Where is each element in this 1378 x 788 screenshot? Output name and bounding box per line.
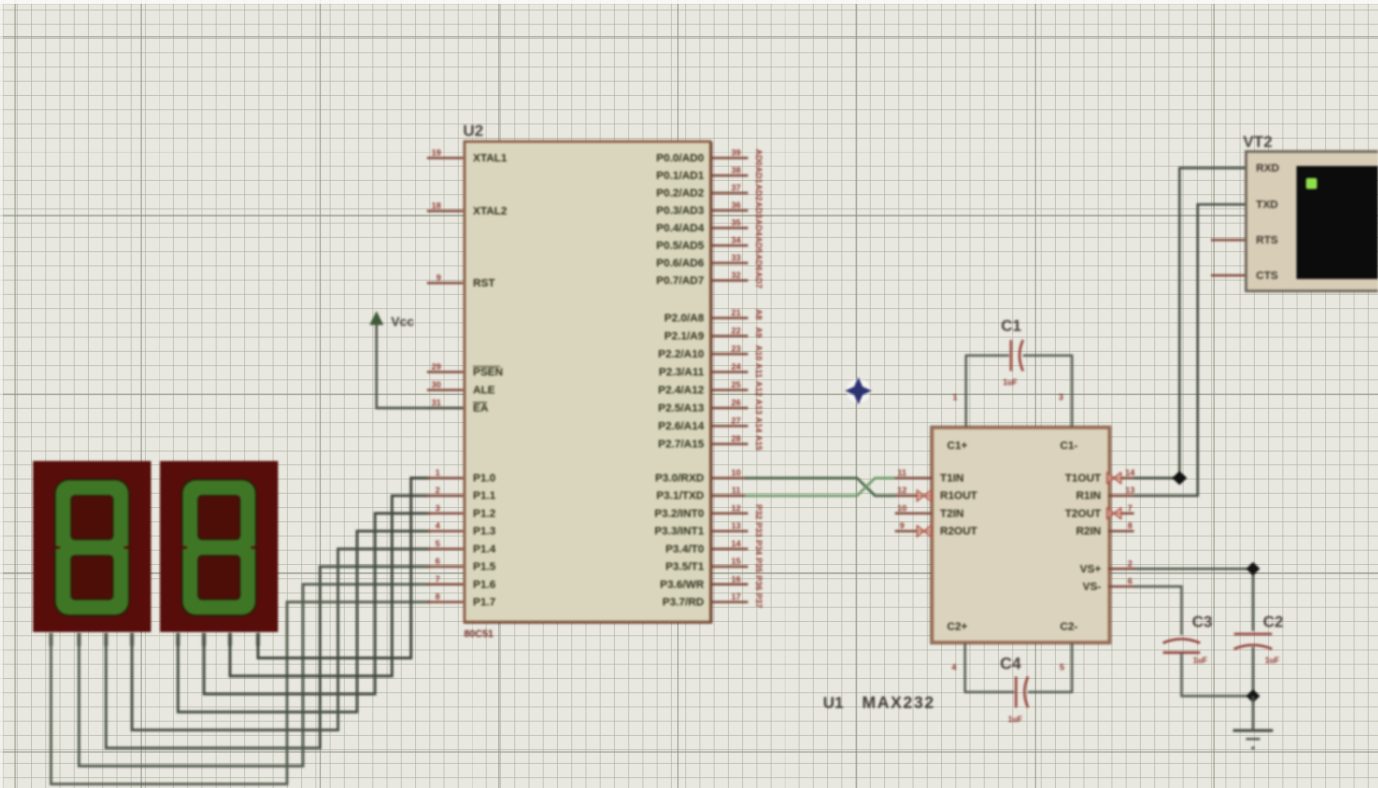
microcontroller U2 (80C51): [464, 142, 712, 624]
ground symbol: [1233, 696, 1273, 750]
wire DS pin x=79 to U2 P1 row 584.3: [79, 584, 430, 766]
svg-text:9: 9: [900, 521, 905, 531]
svg-text:AD4: AD4: [754, 219, 764, 236]
junction T1OUT/RXD: [1172, 471, 1187, 485]
svg-text:P0.2/AD2: P0.2/AD2: [656, 188, 704, 200]
wire U1 VS- to C3 top: [1134, 587, 1182, 636]
svg-text:C2+: C2+: [947, 621, 968, 633]
svg-text:24: 24: [731, 362, 741, 372]
svg-text:39: 39: [731, 148, 741, 158]
svg-text:U1: U1: [823, 695, 844, 712]
U2 P1 pin labels: [473, 473, 497, 609]
svg-text:P3.1/TXD: P3.1/TXD: [656, 490, 704, 502]
svg-text:A11: A11: [754, 363, 764, 378]
svg-text:19: 19: [432, 148, 442, 158]
svg-text:Vcc: Vcc: [391, 314, 414, 329]
svg-text:P34: P34: [754, 540, 764, 555]
svg-text:P1.3: P1.3: [473, 526, 496, 538]
svg-text:AD3: AD3: [754, 202, 764, 219]
svg-text:VS+: VS+: [1080, 563, 1101, 575]
svg-text:PSEN: PSEN: [473, 367, 503, 379]
svg-text:2: 2: [1128, 558, 1133, 568]
svg-text:R2OUT: R2OUT: [940, 526, 978, 538]
svg-text:A12: A12: [754, 381, 764, 397]
svg-text:P1.7: P1.7: [473, 597, 496, 609]
svg-text:5: 5: [435, 538, 440, 548]
U2 left pin labels: [473, 153, 507, 415]
svg-text:P1.5: P1.5: [473, 561, 496, 573]
svg-text:P1.4: P1.4: [473, 543, 497, 555]
U1 R2OUT pin arrow: [917, 526, 931, 537]
svg-text:3: 3: [1059, 392, 1064, 402]
U1 left pin numbers 11 12 10 9: [897, 468, 907, 531]
svg-text:7: 7: [1128, 503, 1133, 513]
svg-text:R1IN: R1IN: [1076, 490, 1101, 502]
svg-text:15: 15: [731, 556, 741, 566]
svg-text:30: 30: [432, 380, 442, 390]
svg-text:16: 16: [731, 574, 741, 584]
svg-text:18: 18: [432, 201, 442, 211]
svg-text:P32: P32: [754, 504, 764, 519]
svg-text:P1.0: P1.0: [473, 473, 496, 485]
U1 top pin numbers 1 3: [953, 392, 1064, 402]
wire DS pin x=230 to U2 P1 row 495.7: [230, 496, 430, 676]
U1 right pin stubs: [1108, 478, 1134, 587]
svg-text:C1: C1: [1001, 318, 1022, 335]
svg-text:P3.4/T0: P3.4/T0: [665, 543, 704, 555]
svg-text:C4: C4: [1000, 655, 1022, 673]
VT2 pin labels RXD TXD RTS CTS: [1256, 163, 1279, 283]
svg-text:6: 6: [435, 556, 440, 566]
svg-text:26: 26: [731, 398, 741, 408]
wire U2 P3.1/TXD to U1 T1IN (crossover): [745, 478, 895, 496]
svg-text:21: 21: [731, 308, 741, 318]
capacitor C4: [1000, 655, 1028, 724]
svg-text:P35: P35: [754, 558, 764, 573]
svg-text:AD1: AD1: [754, 167, 764, 184]
svg-text:33: 33: [731, 253, 741, 263]
svg-text:C2-: C2-: [1060, 621, 1078, 633]
wire Vcc to U2 EA pin 31: [377, 323, 464, 408]
U1 T1OUT pin arrow: [1107, 473, 1121, 484]
svg-text:11: 11: [898, 468, 907, 478]
svg-text:1uF: 1uF: [1003, 378, 1017, 387]
svg-text:12: 12: [897, 485, 907, 495]
VT2 CTS pin stub: [1211, 274, 1245, 276]
IC U1 MAX232: [931, 426, 1111, 644]
svg-text:P2.4/A12: P2.4/A12: [658, 385, 704, 397]
svg-text:12: 12: [731, 503, 741, 513]
svg-text:P33: P33: [754, 522, 764, 537]
svg-text:31: 31: [432, 398, 442, 408]
U2 right net labels (rotated): [754, 149, 764, 608]
svg-text:38: 38: [731, 165, 741, 175]
svg-text:A15: A15: [754, 435, 764, 451]
wire DS pin x=258 to U2 P1 row 478.0: [258, 478, 430, 658]
U2 left pin stubs (XTAL1, XTAL2, RST, PSEN, ALE, EA): [427, 158, 463, 408]
svg-text:1uF: 1uF: [1193, 656, 1207, 665]
U2 P1.0-P1.7 pin stubs: [427, 478, 463, 602]
svg-text:P2.2/A10: P2.2/A10: [658, 349, 704, 361]
svg-text:P3.2/INT0: P3.2/INT0: [654, 508, 704, 520]
U2 P1 pin numbers 1-8: [435, 468, 440, 602]
svg-text:8: 8: [435, 592, 440, 602]
svg-text:17: 17: [731, 592, 741, 602]
svg-text:A10: A10: [754, 345, 764, 361]
wire DS pin x=51 to U2 P1 row 602.0: [51, 602, 430, 784]
svg-text:P0.3/AD3: P0.3/AD3: [656, 205, 704, 217]
wire DS pin x=106 to U2 P1 row 566.6: [106, 567, 430, 748]
svg-text:35: 35: [731, 218, 741, 228]
wire DS pin x=178 to U2 P1 row 531.1: [178, 531, 430, 712]
7-segment display DS1: [33, 461, 151, 632]
svg-text:U2: U2: [463, 123, 484, 140]
svg-text:28: 28: [731, 434, 741, 444]
svg-text:C2: C2: [1263, 614, 1284, 631]
svg-text:10: 10: [897, 503, 907, 513]
svg-text:1uF: 1uF: [1008, 715, 1022, 724]
svg-text:CTS: CTS: [1256, 270, 1278, 282]
svg-text:VT2: VT2: [1243, 134, 1272, 151]
wire DS pin x=132 to U2 P1 row 548.9: [132, 549, 430, 730]
svg-text:3: 3: [435, 503, 440, 513]
svg-text:P2.1/A9: P2.1/A9: [664, 331, 704, 343]
svg-text:A8: A8: [754, 309, 764, 320]
svg-text:P3.0/RXD: P3.0/RXD: [655, 473, 704, 485]
svg-text:C1+: C1+: [947, 440, 968, 452]
svg-text:13: 13: [731, 521, 741, 531]
svg-text:P2.6/A14: P2.6/A14: [658, 421, 705, 433]
VT2 RTS pin stub: [1211, 239, 1245, 241]
svg-text:11: 11: [732, 485, 741, 495]
svg-text:AD0: AD0: [754, 149, 764, 166]
wire U1 VS+ to C2 top: [1134, 569, 1253, 631]
svg-text:25: 25: [731, 380, 741, 390]
svg-text:2: 2: [435, 485, 440, 495]
svg-text:10: 10: [731, 468, 741, 478]
svg-text:EA: EA: [473, 403, 488, 415]
svg-text:9: 9: [436, 273, 441, 283]
U2 right pin numbers: [731, 148, 741, 602]
svg-text:C3: C3: [1192, 614, 1213, 631]
svg-text:VS-: VS-: [1083, 581, 1102, 593]
svg-text:A13: A13: [754, 399, 764, 415]
capacitor C3: [1163, 614, 1213, 665]
U1 T2OUT pin arrow: [1107, 508, 1121, 519]
svg-text:14: 14: [1125, 468, 1135, 478]
svg-text:P0.7/AD7: P0.7/AD7: [656, 275, 704, 287]
svg-text:P0.1/AD1: P0.1/AD1: [656, 170, 704, 182]
U1 R1OUT pin arrow: [917, 490, 931, 501]
svg-text:P0.0/AD0: P0.0/AD0: [656, 153, 704, 165]
wire DS pin x=204 to U2 P1 row 513.4: [204, 513, 430, 694]
U1 left pin stubs: [895, 478, 932, 531]
power Vcc: [370, 311, 415, 329]
svg-text:5: 5: [1060, 662, 1065, 672]
DS1 pins: [51, 633, 132, 646]
svg-text:AD6: AD6: [754, 254, 764, 271]
junction ground node: [1246, 689, 1260, 703]
svg-text:P1.1: P1.1: [473, 490, 496, 502]
svg-text:P1.2: P1.2: [473, 508, 496, 520]
svg-text:R1OUT: R1OUT: [940, 490, 978, 502]
svg-text:27: 27: [731, 416, 741, 426]
svg-text:XTAL1: XTAL1: [473, 153, 507, 165]
svg-text:1uF: 1uF: [1265, 656, 1279, 665]
svg-text:T1IN: T1IN: [940, 473, 964, 485]
svg-text:4: 4: [952, 662, 957, 672]
7-segment display DS2: [160, 461, 278, 632]
svg-text:A14: A14: [754, 417, 764, 433]
svg-text:TXD: TXD: [1256, 199, 1278, 211]
svg-text:1: 1: [435, 468, 440, 478]
svg-text:P3.3/INT1: P3.3/INT1: [654, 526, 704, 538]
svg-text:13: 13: [1125, 485, 1135, 495]
svg-text:P0.4/AD4: P0.4/AD4: [656, 223, 705, 235]
wire U1 R1IN to VT2 TXD: [1134, 204, 1245, 495]
svg-text:34: 34: [731, 235, 741, 245]
svg-text:T2IN: T2IN: [940, 508, 964, 520]
svg-text:14: 14: [731, 538, 741, 548]
svg-text:1: 1: [953, 392, 958, 402]
svg-text:22: 22: [731, 326, 741, 336]
U1 corner labels C1+ C1- C2+ C2-: [947, 440, 1078, 633]
svg-text:T2OUT: T2OUT: [1065, 508, 1101, 520]
U1 bottom pin numbers 4 5: [952, 662, 1065, 672]
svg-text:P1.6: P1.6: [473, 579, 496, 591]
svg-text:37: 37: [731, 183, 741, 193]
wire U1 pin1 to C1 to U1 pin3: [965, 356, 1073, 428]
svg-text:P2.3/A11: P2.3/A11: [659, 367, 704, 379]
virtual terminal VT2: [1246, 152, 1378, 292]
capacitor C2: [1234, 614, 1284, 665]
svg-text:P2.7/A15: P2.7/A15: [658, 439, 704, 451]
svg-text:P3.5/T1: P3.5/T1: [665, 561, 704, 573]
svg-text:ALE: ALE: [473, 385, 495, 397]
junction VS+ / C2: [1246, 562, 1260, 576]
svg-text:P36: P36: [754, 575, 764, 590]
svg-text:32: 32: [731, 270, 741, 280]
svg-text:T1OUT: T1OUT: [1065, 473, 1101, 485]
U1 right pin numbers 14 13 7 8 2 6: [1125, 468, 1135, 587]
svg-text:P3.6/WR: P3.6/WR: [660, 579, 704, 591]
svg-text:P2.5/A13: P2.5/A13: [658, 403, 704, 415]
svg-text:P3.7/RD: P3.7/RD: [662, 597, 704, 609]
svg-text:36: 36: [731, 200, 741, 210]
U2 left pin numbers 19 18 9 29 30 31: [432, 148, 442, 408]
U1 left pin labels: [940, 473, 978, 538]
svg-text:29: 29: [432, 362, 442, 372]
svg-text:MAX232: MAX232: [862, 694, 935, 712]
svg-text:AD5: AD5: [754, 237, 764, 254]
svg-text:P0.5/AD5: P0.5/AD5: [656, 240, 704, 252]
svg-text:P2.0/A8: P2.0/A8: [664, 313, 704, 325]
wire U1 T1OUT to VT2 RXD: [1134, 168, 1245, 478]
svg-text:AD7: AD7: [754, 272, 764, 289]
svg-text:A9: A9: [754, 327, 764, 338]
capacitor C1: [1001, 318, 1023, 387]
DS2 pins: [178, 633, 258, 646]
svg-text:AD2: AD2: [754, 184, 764, 201]
svg-text:RTS: RTS: [1256, 235, 1278, 247]
wire C3 bottom to ground junction: [1182, 653, 1254, 696]
U2 right pin stubs P0 P2 P3: [712, 158, 748, 602]
svg-text:RST: RST: [473, 278, 495, 290]
U1 right pin labels: [1065, 473, 1101, 594]
node origin marker (blue star): [845, 377, 872, 405]
svg-text:R2IN: R2IN: [1076, 526, 1101, 538]
svg-text:P37: P37: [754, 593, 764, 608]
svg-text:4: 4: [435, 521, 440, 531]
svg-text:23: 23: [731, 344, 741, 354]
svg-text:7: 7: [435, 574, 440, 584]
svg-text:P0.6/AD6: P0.6/AD6: [656, 258, 704, 270]
svg-text:C1-: C1-: [1060, 440, 1078, 452]
wire U2 P3.0/RXD to U1 R1OUT (crossover): [745, 478, 895, 496]
svg-text:8: 8: [1128, 521, 1133, 531]
svg-text:RXD: RXD: [1256, 163, 1279, 175]
svg-text:6: 6: [1128, 576, 1133, 586]
wire U1 pin4 to C4 to U1 pin5: [964, 643, 1073, 692]
wire C2 bottom to ground junction: [1252, 647, 1254, 696]
U2 right pin labels: [654, 153, 704, 609]
svg-text:XTAL2: XTAL2: [473, 206, 507, 218]
svg-text:80C51: 80C51: [464, 629, 494, 640]
